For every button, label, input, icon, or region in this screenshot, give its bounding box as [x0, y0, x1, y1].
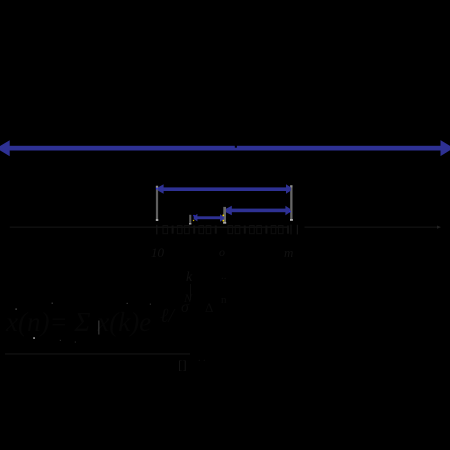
gray boundary line D (x=190, short)	[189, 215, 191, 223]
bright blue tip dot arrow2 left	[156, 188, 158, 190]
gray boundary line A (left)	[156, 186, 158, 220]
svg-text:m: m	[284, 245, 293, 260]
bright blue tip dot arrow3 right	[289, 211, 291, 213]
bright vertical stroke in formula	[98, 321, 99, 335]
svg-text:k: k	[186, 270, 193, 285]
gray boundary line C (middle, x=224)	[223, 207, 226, 222]
svg-text:..: ..	[221, 270, 227, 282]
arrow 2 (x 158-290, y 189)	[158, 184, 291, 194]
svg-text:n: n	[221, 294, 227, 306]
sequence brackets	[156, 225, 157, 235]
axis arrowhead	[437, 226, 441, 229]
svg-text:Δ: Δ	[205, 300, 213, 315]
fraction bar	[5, 353, 190, 354]
svg-text:σ: σ	[181, 299, 190, 316]
specks	[33, 337, 35, 339]
gray boundary line B (right)	[290, 185, 292, 219]
svg-text:10: 10	[151, 245, 165, 260]
yellow specks near middle tick	[223, 215, 225, 217]
svg-text:[]: []	[178, 357, 187, 372]
black label notch on long arrow	[235, 145, 237, 148]
bright blue tip dot arrow4 left	[193, 215, 194, 216]
svg-text:x(n)= Σ x(k)e: x(n)= Σ x(k)e	[5, 307, 151, 337]
svg-text:o: o	[219, 245, 225, 259]
svg-text:. .: . .	[198, 353, 206, 364]
arrow 4 (x 193.4-224, y 217.7)	[194, 214, 224, 222]
axis line (left segment)	[10, 227, 289, 228]
long double arrow (top)	[0, 140, 450, 156]
bit-sequence row: blocky digit boxes	[163, 226, 290, 234]
axis line (right segment)	[305, 227, 438, 228]
arrow 3 (x 226-290, y 210.4)	[226, 206, 290, 216]
svg-text:ℓ/: ℓ/	[160, 305, 176, 327]
